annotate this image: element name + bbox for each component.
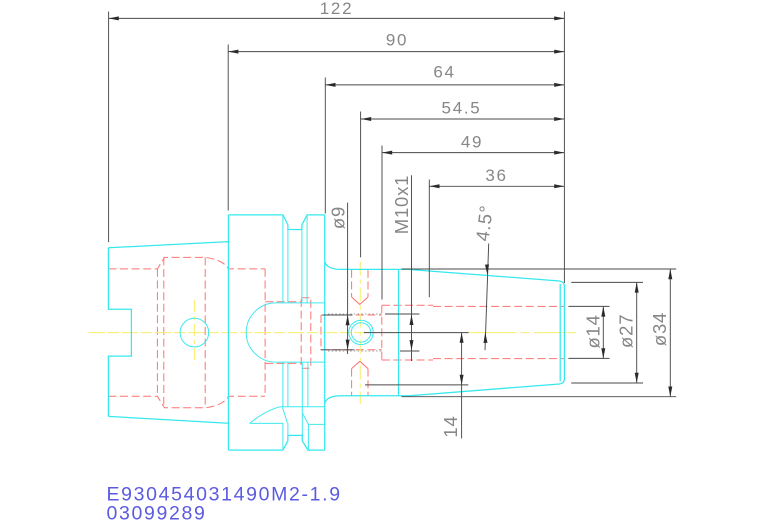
svg-text:14: 14: [440, 415, 461, 437]
ext line 90: [227, 45, 229, 211]
dimension text: [320, 0, 670, 438]
shank hole circle: [180, 318, 209, 347]
groove edge vertical c2: [301, 362, 303, 441]
fillet flange to collar top: [325, 262, 341, 270]
slot step diagonal: [302, 413, 308, 425]
slot lower step vertical: [307, 424, 309, 450]
dia34 v arrows: [668, 269, 672, 279]
part outline (cyan): [108, 215, 324, 450]
groove edge vertical a2 upper: [282, 362, 284, 407]
svg-text:122: 122: [320, 0, 353, 18]
upper cross hole right: [367, 270, 369, 297]
dia27 v arrows: [635, 282, 639, 292]
dia9 ext top: [323, 314, 353, 316]
dim line 36: [429, 185, 564, 187]
groove edge vertical d2: [307, 362, 309, 407]
counterbore top: [382, 304, 433, 306]
svg-text:ø34: ø34: [649, 312, 670, 346]
dia14 ext top: [568, 305, 609, 307]
bore wall line 1: [156, 269, 158, 396]
shank taper bore bottom: [108, 396, 265, 408]
svg-text:36: 36: [485, 166, 507, 185]
groove edge vertical a: [282, 215, 284, 303]
dim 14 line: [461, 333, 463, 439]
cross hole vertical centerline: [359, 262, 361, 405]
scallop chord: [250, 422, 284, 424]
dia27 dim line: [636, 282, 638, 383]
dome hidden top line: [265, 301, 301, 303]
shank taper bore top: [108, 257, 265, 269]
flange right face: [324, 215, 326, 450]
groove edge vertical b2 upper: [287, 362, 289, 407]
M10 tap drill hole bottom: [321, 349, 382, 351]
svg-text:64: 64: [433, 63, 455, 82]
svg-text:ø14: ø14: [583, 314, 604, 348]
svg-text:ø27: ø27: [616, 314, 637, 348]
flange left face: [227, 215, 229, 450]
arrowheads: [109, 16, 673, 396]
shank taper top: [108, 242, 228, 248]
dome arc: [246, 303, 276, 362]
dia9 dim line: [347, 203, 349, 354]
dia14 dim line: [602, 306, 604, 358]
svg-text:03099289: 03099289: [107, 503, 207, 523]
groove edge vertical a2 lower: [282, 423, 284, 450]
bore wall line 2: [163, 257, 165, 407]
dia34 ext bottom: [402, 396, 677, 398]
counterbore bottom: [382, 359, 433, 361]
bore back wall: [264, 269, 266, 396]
nose chamfer line: [559, 284, 561, 381]
dim line 64: [325, 84, 564, 86]
dim14 arrows: [460, 333, 464, 343]
dia34 dim line: [669, 269, 671, 397]
flange top edge: [228, 215, 324, 230]
M10 center leader: [364, 332, 469, 334]
bore wall line 3: [204, 257, 206, 407]
dimension lines (gray): [109, 12, 677, 439]
dia14 v arrows: [601, 306, 605, 316]
lower cross hole right: [367, 369, 369, 396]
groove edge vertical b2 lower: [287, 423, 289, 441]
shank taper bottom: [108, 416, 228, 423]
counterbore step: [381, 305, 383, 360]
bore Ø14 bottom: [433, 358, 564, 360]
scallop arc: [250, 407, 282, 424]
lower cross hole left: [351, 369, 353, 396]
ext line right common: [563, 12, 565, 284]
collar bottom: [341, 395, 411, 397]
dome top line: [276, 302, 326, 304]
dia34 ext top: [402, 268, 677, 270]
dim line 90: [228, 51, 564, 53]
dim 14 ext: [365, 384, 468, 386]
bore Ø14 top: [433, 305, 564, 307]
dome hidden box: [301, 298, 311, 368]
ext line 54.5: [360, 112, 362, 258]
svg-text:49: 49: [461, 133, 483, 152]
dia27 ext top: [571, 281, 643, 283]
upper cross hole left: [351, 270, 353, 297]
dia14 ext bottom: [568, 357, 609, 359]
dome bottom line: [276, 361, 326, 363]
svg-text:54.5: 54.5: [442, 99, 482, 118]
ext line 64: [324, 78, 326, 214]
svg-text:ø9: ø9: [327, 206, 348, 229]
svg-text:4.5°: 4.5°: [472, 204, 497, 243]
slot lower step: [308, 423, 325, 425]
svg-text:90: 90: [386, 31, 408, 50]
collar/cone joint: [398, 269, 400, 395]
ext line 36: [428, 180, 430, 298]
coolant circle inner: [351, 323, 370, 342]
angle leader: [485, 244, 489, 351]
collar top: [341, 268, 411, 270]
M10 ext top: [385, 313, 419, 315]
fillet flange to collar bottom: [325, 396, 341, 404]
centerlines (yellow): [89, 262, 577, 405]
shank hole vertical centerline: [193, 300, 195, 365]
M10 ext bottom: [400, 350, 419, 352]
scallop diagonal: [282, 407, 287, 423]
svg-text:M10x1: M10x1: [391, 175, 412, 235]
dim line 54.5: [361, 118, 564, 120]
angle arrows: [485, 264, 489, 275]
dia27 ext bottom: [571, 382, 643, 384]
M10 tap drill hole top: [321, 314, 382, 316]
main horizontal centerline: [89, 332, 367, 334]
flange bottom edge: [228, 435, 324, 450]
part number text: [107, 484, 342, 523]
shank left edge upper: [108, 248, 131, 417]
groove edge vertical d: [306, 215, 308, 303]
tap hole end: [320, 315, 322, 350]
M10 arrows: [410, 315, 414, 325]
groove edge vertical b: [287, 225, 289, 303]
slot shoulder line: [281, 406, 325, 408]
dia9 ext bottom: [321, 349, 355, 351]
hidden lines (red dashed): [108, 257, 563, 407]
ext line 122: [108, 12, 110, 243]
upper hole drill point: [352, 297, 368, 304]
thread minor dotted lines: [328, 314, 382, 351]
dome hidden bottom line: [265, 362, 301, 364]
M10 dim line: [411, 175, 413, 361]
coolant circle outer: [349, 320, 373, 344]
dim line 122: [109, 17, 565, 19]
ext line 49: [381, 146, 383, 300]
lower hole drill point: [352, 361, 368, 368]
dia9 arrows: [346, 315, 350, 325]
cone outline: [411, 270, 564, 396]
dim line 49: [382, 152, 564, 154]
groove edge vertical c: [301, 225, 303, 303]
